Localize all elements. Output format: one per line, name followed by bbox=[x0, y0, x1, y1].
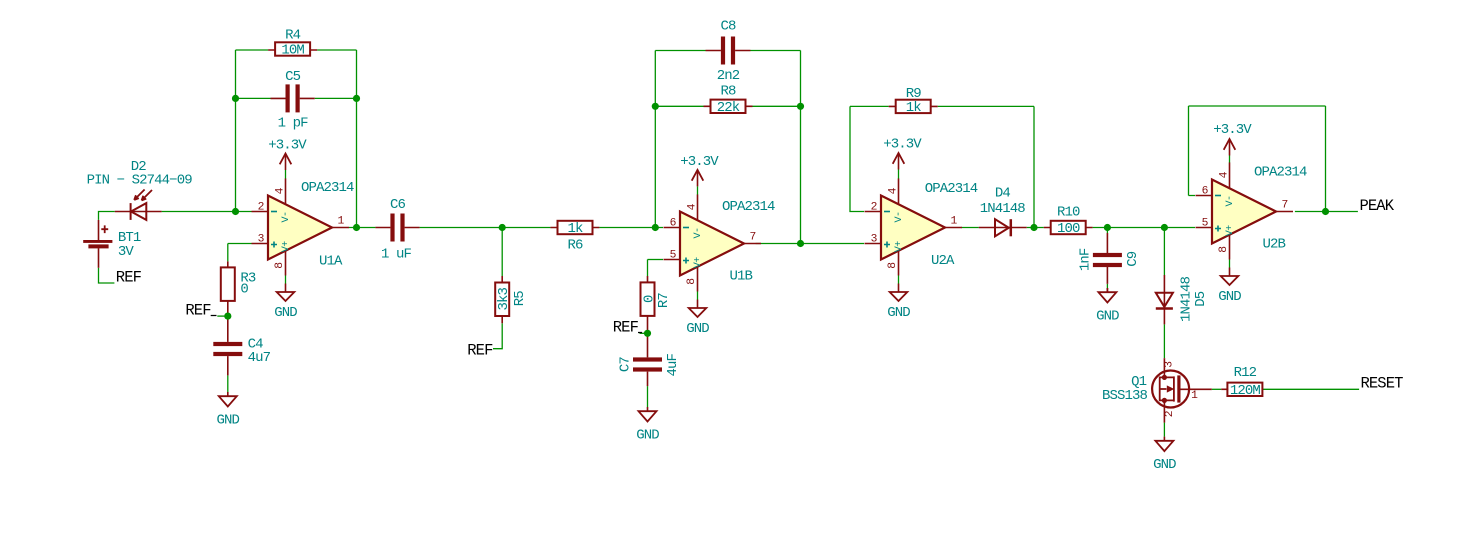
svg-text:1 uF: 1 uF bbox=[381, 246, 412, 262]
svg-text:REF: REF bbox=[467, 342, 493, 360]
svg-text:R8: R8 bbox=[720, 84, 736, 100]
svg-text:OPA2314: OPA2314 bbox=[925, 181, 978, 197]
svg-text:0: 0 bbox=[641, 295, 657, 303]
svg-text:R10: R10 bbox=[1057, 205, 1080, 221]
svg-text:GND: GND bbox=[1218, 289, 1241, 305]
svg-text:8: 8 bbox=[274, 262, 286, 269]
svg-text:GND: GND bbox=[1096, 308, 1119, 324]
svg-text:C9: C9 bbox=[1125, 251, 1141, 267]
svg-text:120M: 120M bbox=[1230, 383, 1261, 399]
svg-text:D5: D5 bbox=[1193, 291, 1209, 307]
svg-text:PIN − S2744−09: PIN − S2744−09 bbox=[87, 172, 193, 188]
svg-text:U1A: U1A bbox=[319, 254, 343, 270]
svg-text:1: 1 bbox=[1191, 390, 1198, 402]
svg-text:GND: GND bbox=[217, 412, 240, 428]
svg-text:2: 2 bbox=[1164, 411, 1176, 417]
svg-text:V-: V- bbox=[281, 211, 292, 222]
svg-text:REF: REF bbox=[613, 319, 639, 337]
svg-text:OPA2314: OPA2314 bbox=[1254, 164, 1307, 180]
svg-text:BSS138: BSS138 bbox=[1102, 388, 1148, 404]
svg-text:0: 0 bbox=[240, 282, 248, 298]
svg-text:8: 8 bbox=[686, 278, 698, 285]
svg-text:10M: 10M bbox=[281, 43, 304, 59]
svg-text:4: 4 bbox=[687, 203, 699, 210]
svg-text:6: 6 bbox=[1202, 186, 1209, 198]
svg-text:4: 4 bbox=[275, 187, 287, 194]
svg-text:5: 5 bbox=[1202, 218, 1209, 230]
svg-text:OPA2314: OPA2314 bbox=[301, 180, 354, 196]
svg-text:C6: C6 bbox=[390, 197, 406, 213]
svg-text:6: 6 bbox=[670, 218, 677, 230]
svg-text:1k: 1k bbox=[906, 100, 922, 116]
svg-text:C7: C7 bbox=[617, 357, 633, 373]
svg-text:1nF: 1nF bbox=[1078, 248, 1094, 271]
svg-text:100: 100 bbox=[1057, 221, 1080, 237]
svg-text:+3.3V: +3.3V bbox=[268, 138, 307, 154]
svg-text:U2B: U2B bbox=[1263, 237, 1286, 253]
svg-text:V-: V- bbox=[894, 211, 905, 222]
svg-text:D4: D4 bbox=[995, 186, 1011, 202]
svg-text:U2A: U2A bbox=[931, 253, 955, 269]
svg-text:REF: REF bbox=[116, 268, 142, 286]
svg-text:5: 5 bbox=[670, 250, 677, 262]
svg-text:C5: C5 bbox=[285, 69, 301, 85]
svg-text:1: 1 bbox=[338, 216, 345, 228]
svg-text:R6: R6 bbox=[567, 237, 583, 253]
svg-text:V+: V+ bbox=[894, 241, 905, 253]
svg-text:U1B: U1B bbox=[730, 269, 753, 285]
svg-text:GND: GND bbox=[1153, 457, 1176, 473]
svg-text:4: 4 bbox=[1219, 171, 1231, 178]
svg-text:3: 3 bbox=[1163, 361, 1175, 368]
svg-text:PEAK: PEAK bbox=[1360, 197, 1395, 215]
svg-text:V-: V- bbox=[693, 227, 704, 238]
svg-text:GND: GND bbox=[274, 305, 297, 321]
svg-text:GND: GND bbox=[636, 427, 659, 443]
svg-text:V+: V+ bbox=[281, 241, 292, 253]
svg-text:3k3: 3k3 bbox=[496, 288, 512, 311]
svg-text:R7: R7 bbox=[656, 293, 672, 309]
svg-text:GND: GND bbox=[686, 321, 709, 337]
svg-text:4u7: 4u7 bbox=[248, 350, 271, 366]
svg-text:C8: C8 bbox=[720, 19, 736, 35]
svg-text:1N4148: 1N4148 bbox=[980, 201, 1026, 217]
svg-text:1: 1 bbox=[951, 216, 958, 228]
svg-text:7: 7 bbox=[1282, 200, 1288, 212]
svg-text:R12: R12 bbox=[1234, 365, 1257, 381]
svg-text:1k: 1k bbox=[567, 221, 583, 237]
svg-text:8: 8 bbox=[1218, 246, 1230, 253]
svg-text:22k: 22k bbox=[717, 100, 740, 116]
svg-text:3: 3 bbox=[258, 234, 265, 246]
svg-text:R9: R9 bbox=[906, 86, 922, 102]
svg-text:+3.3V: +3.3V bbox=[1213, 122, 1252, 138]
svg-text:+3.3V: +3.3V bbox=[680, 154, 719, 170]
svg-text:3: 3 bbox=[871, 234, 878, 246]
svg-text:V+: V+ bbox=[1225, 225, 1236, 237]
svg-text:4: 4 bbox=[888, 187, 900, 194]
svg-text:7: 7 bbox=[750, 232, 756, 244]
svg-text:V-: V- bbox=[1225, 195, 1236, 206]
svg-text:REF: REF bbox=[185, 301, 211, 319]
svg-text:V+: V+ bbox=[693, 257, 704, 269]
svg-text:GND: GND bbox=[887, 305, 910, 321]
svg-text:OPA2314: OPA2314 bbox=[722, 199, 775, 215]
svg-text:8: 8 bbox=[887, 262, 899, 269]
svg-text:4uF: 4uF bbox=[665, 354, 681, 377]
svg-text:R5: R5 bbox=[512, 291, 528, 307]
svg-text:+3.3V: +3.3V bbox=[883, 137, 922, 153]
svg-text:2n2: 2n2 bbox=[717, 68, 740, 84]
svg-text:RESET: RESET bbox=[1361, 375, 1404, 393]
svg-text:1 pF: 1 pF bbox=[278, 116, 309, 132]
svg-text:2: 2 bbox=[258, 202, 264, 214]
svg-text:R4: R4 bbox=[285, 28, 301, 44]
svg-text:3V: 3V bbox=[118, 244, 135, 260]
svg-text:2: 2 bbox=[871, 202, 877, 214]
